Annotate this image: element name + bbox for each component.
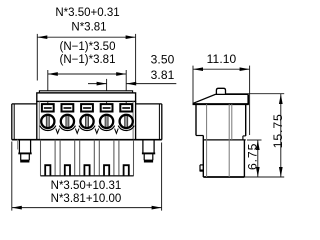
front view housing bottom edge (12, 139, 162, 141)
extension line tab top (226, 93, 285, 95)
svg-text:N*3.81+10.00: N*3.81+10.00 (51, 193, 122, 205)
dimension line 6.75 (256, 140, 260, 177)
svg-text:15.75: 15.75 (271, 113, 285, 148)
svg-text:N*3.50+0.31: N*3.50+0.31 (55, 7, 119, 19)
wire slot 4 (101, 104, 113, 111)
side view lower block (203, 136, 244, 178)
dimension line 11.10 (193, 66, 250, 135)
screw 2 (61, 115, 74, 128)
bottom extension line side view (244, 176, 284, 178)
scallop arc under pole 2 (59, 126, 75, 131)
left stub line (17, 140, 19, 150)
side view latch tab (216, 88, 225, 94)
svg-text:11.10: 11.10 (207, 52, 237, 66)
contact pin 3 (84, 165, 89, 176)
scallop arc under pole 5 (118, 126, 134, 131)
scallop notch 1 (56, 129, 60, 134)
screw 5 (120, 115, 133, 128)
svg-text:3.81: 3.81 (151, 68, 175, 82)
side view roof plate (193, 94, 249, 104)
extension line 6.75 top (247, 139, 262, 141)
front view top lip (39, 91, 132, 93)
dimension line pole span (N-1) (48, 70, 126, 104)
dimension line overall width N*3.81 (37, 34, 135, 84)
contact pin 1 (45, 165, 50, 176)
svg-text:N*3.81: N*3.81 (71, 21, 106, 33)
svg-text:(N−1)*3.81: (N−1)*3.81 (60, 54, 116, 66)
scallop arc under pole 4 (99, 126, 115, 131)
shroud side walls (41, 140, 134, 176)
right mounting peg (142, 140, 155, 163)
wire slot 3 (81, 104, 93, 111)
side view foot (200, 165, 204, 172)
contact pin 5 (124, 165, 129, 176)
screw 3 (80, 115, 93, 128)
wire slot 1 (42, 104, 54, 111)
front view top plate (37, 93, 136, 102)
contact pin 2 (65, 165, 70, 176)
wire slot 5 (120, 104, 132, 111)
front view left flange (12, 104, 37, 140)
scallop arc under pole 3 (79, 126, 95, 131)
front view right flange (136, 104, 162, 140)
dimension line bottom overall width (12, 142, 162, 211)
screw 4 (100, 115, 113, 128)
svg-text:3.50: 3.50 (151, 53, 175, 67)
dimension line 15.75 (279, 94, 283, 177)
contact pin 4 (104, 165, 109, 176)
side view upper body (196, 104, 246, 140)
left mounting peg (18, 140, 31, 163)
wire slot 2 (62, 104, 74, 111)
pitch dimension leader 3.50/3.81 (88, 82, 176, 86)
scallop notch 4 (115, 129, 119, 134)
side view internal edges (207, 104, 232, 177)
scallop notch 2 (75, 129, 79, 134)
screw 1 (41, 115, 54, 128)
scallop arc under pole 1 (40, 126, 56, 131)
scallop notch 3 (95, 129, 99, 134)
svg-text:(N−1)*3.50: (N−1)*3.50 (60, 41, 116, 53)
svg-text:6.75: 6.75 (245, 143, 259, 170)
svg-text:N*3.50+10.31: N*3.50+10.31 (51, 180, 122, 192)
shroud baseline (40, 175, 133, 177)
front view housing sides (37, 101, 136, 139)
